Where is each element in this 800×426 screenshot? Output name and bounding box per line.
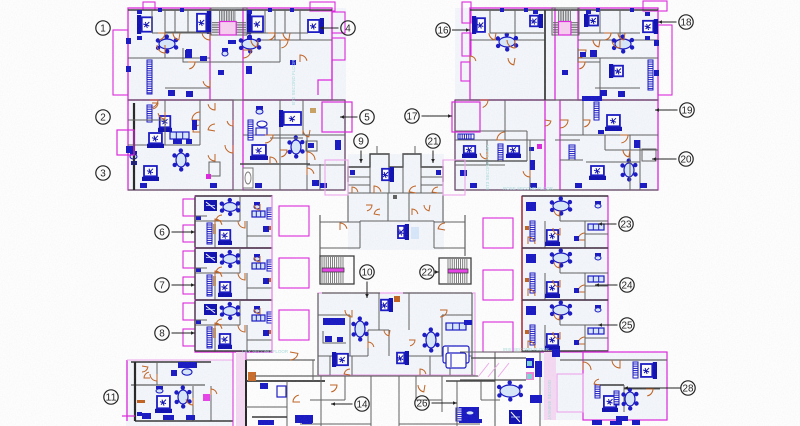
door extra TL-e [152,103,158,109]
wall BC v1 [344,376,346,400]
edge mark ML-1 [267,226,271,230]
door TL band 1 [158,33,165,40]
magenta wash corridor BR [544,352,556,420]
wall TR interior v4 [599,58,601,100]
wc TL a [168,90,175,96]
dining table MR-3 [550,300,573,319]
strip TL-4 [248,120,253,140]
wall TR interior v6 [582,100,584,135]
edge mark MR-3 [525,330,529,334]
toilet BR row [616,416,628,421]
bed TL-3 [247,14,263,34]
wall TL interior h1 [128,57,210,59]
label circle 21 [426,134,440,163]
window tick TL d [290,8,294,12]
wall BC porch h2 [310,399,345,401]
dining BL vertical [174,385,191,408]
stair center-right [439,258,471,284]
dining table MR-2 [550,248,573,267]
bed CB-4 light [443,346,469,363]
door CT-2 [409,186,416,193]
dining table MR-1 [550,196,573,215]
tub streaks BR [478,363,509,377]
closet TR3 strip [594,102,599,120]
wall TL mid-h [128,99,345,101]
wall MR-1 top [522,195,608,197]
wall CB v6 [441,315,443,356]
wall TR interior h2 [578,39,658,41]
door CT-5 [352,187,358,193]
bed TL-10 [279,110,301,127]
wall CT h2 [348,184,370,186]
unit outline TR-2 [578,8,658,100]
balcony ML-2 [279,258,309,288]
unit outline TL-4 [243,100,345,190]
door TL-6 [265,135,273,143]
door TL u3 e [208,154,215,161]
wall TL band v c [264,10,266,33]
door BR-2 [583,362,591,370]
wall TR mid-h [455,99,658,101]
door TR u3 a [623,150,630,157]
door extra TR-e [545,120,551,126]
wc TL b [186,91,193,97]
wc row TR a [470,183,477,188]
wall MR-1 h1 [560,220,608,222]
wall CT h2b [348,176,370,178]
wall ML-1 v3 [246,221,248,248]
ac stack TR3 [569,145,575,160]
wc TR u4 [460,170,467,176]
fixture BC a [302,415,312,424]
label circle 1 [96,21,110,35]
door extra ML-2 [216,267,222,273]
magenta dot TL [206,174,211,179]
wc row TR b [530,183,537,188]
wall TR3 h162 [586,161,640,163]
dining table ML-2 [220,250,241,268]
wall TL left edge black [133,103,135,190]
kitchen MR-3 [526,306,536,315]
armchair ML-2 [204,252,217,263]
closet TR-2 [458,134,474,139]
CB outline [318,293,475,375]
wall BL corridor h4 [252,416,287,418]
door TL-9 [150,100,158,108]
wall BC porch h3 [416,399,442,401]
label circle 17 [405,109,452,123]
wall CB v7 [351,356,353,375]
door TR-8 [523,170,530,177]
door BC-2 [418,385,425,392]
wall ML-2 h2 [247,287,272,289]
wall CB h1 [318,314,350,316]
door extra TR-b [578,62,585,69]
nightstand TR c [645,12,650,16]
wall TL band v d [284,10,286,33]
porch ML-2 a [183,251,195,268]
closet MR-2 [530,273,535,293]
tv BL [178,362,197,368]
label circle 18 [658,15,693,29]
nightstand MR-1 [574,236,579,241]
wall TL u4 h [307,164,345,166]
wall ML-1 top [195,195,272,197]
bed TL-1 [137,15,152,34]
cyan dot BR a [527,361,532,366]
corridor wall left v [319,215,321,256]
dining TL-1 [156,34,179,53]
wall CB v5 [349,315,351,356]
paper tint TL [128,8,346,190]
wall CB h3 [318,355,368,357]
wall TR band h [490,32,545,34]
kitchen counter TL [183,48,210,62]
basin ML-2 [196,268,201,272]
wall ML-1 h1 [195,220,240,222]
window stack ML-3 [267,312,272,323]
wall BC v5 [441,376,443,412]
wall TR interior v3 [619,10,621,40]
dining TR-3 vertical [620,158,637,181]
wall CT v3 [402,154,404,193]
porch TL top b [310,2,335,11]
label circle 2 [96,110,110,124]
porch TL left mid [117,130,134,155]
wall TR-3 h extra [605,149,658,151]
wall TR interior v2 [544,10,546,100]
magenta dot TR [537,144,542,149]
window tick TL a [158,8,162,12]
orange figure BL [248,372,256,381]
wall BL h1 [131,384,205,386]
orange box CB [394,296,400,302]
sofa ML-2 [252,263,265,269]
wc bits BL a [258,420,274,425]
wc TR u3 [634,140,640,148]
sink CB [325,336,332,342]
balcony TL right steps b [332,38,345,60]
door TL-1 [157,45,165,53]
wall MR-2 v3 [544,273,546,300]
wall TL band h [152,32,210,34]
bed TR-7 [506,146,521,158]
door ML-2 c [254,256,260,262]
wall TL interior v8 [306,135,308,190]
door CB-3 [368,342,374,348]
label circle 3 [96,166,110,180]
wall TL interior v2 [187,10,189,32]
wc row BR26 [464,419,482,423]
door BR-1 [612,360,620,368]
tan strip ML-1 [213,224,216,234]
bed TR-4 [643,19,658,34]
door CB-2 [440,310,447,317]
paper tint CENTER [348,154,444,250]
door TL-2 [243,50,251,58]
wall TL interior v1 [164,10,166,58]
basin ML-3 [196,320,201,324]
wall TR top [470,9,658,11]
wall MR-2 v1 [559,250,561,273]
balcony ML-3 [279,310,309,340]
toilet row BL b [163,415,174,420]
coffee table TL [173,139,182,144]
toilet TL-3 [130,151,137,159]
dresser TL u4 [335,140,341,150]
unit outline ML-1 [195,196,272,248]
wall ML-2 v1 [239,248,241,273]
BL magenta top [127,359,233,361]
wall TL band v a [151,10,153,33]
door ML-2 b [215,271,222,278]
wall BL corridor v mag a [232,352,234,426]
wall CB central room l [367,330,369,356]
window stack ML-2 [267,260,272,271]
edge mark ML-2 [267,278,271,282]
toilet MR-3 [595,305,601,312]
wall MR-2 h1 [560,272,608,274]
door extra TL-a [188,62,195,69]
wall ML-2 top [195,247,272,249]
door TL u3 b [193,125,200,132]
porch ML-3 a [183,303,195,320]
bed TR-8 [605,115,622,131]
unit outline TR-3 [560,100,658,190]
label circle 24 [595,278,634,292]
wall TL-4 h138 [270,137,303,139]
dark bed BR [509,410,522,424]
door MR-2 [553,280,560,287]
bed TR-9 [589,166,606,180]
corridor wall h right [434,247,465,249]
door TL band 3 [268,33,275,40]
hall fixture TL [218,70,224,75]
wall CB v8 [429,356,431,375]
wc row TL d [320,183,327,188]
wall BL corridor v mag b [245,352,247,360]
bed BR-3 light [446,353,466,368]
wall CT h3 [421,184,443,186]
wall BR26 h400 [481,399,500,401]
wall TL interior v3 [274,10,276,40]
sink TL [200,56,207,61]
wall CB v2 [471,293,473,375]
wall MR-2 top [522,247,608,249]
wall BC bottom-l [300,423,371,425]
paper tint MR [522,196,608,352]
armchair ML-1 [204,200,217,211]
kitchen counter CB [323,331,346,343]
wall BL v3 [192,386,194,421]
wall BR26 v457 [456,381,458,426]
label circle 26 [415,396,457,410]
door CT-4 [424,205,430,211]
wall TR u4 v [486,140,488,165]
dining TR-2 [612,34,635,53]
room box 5 [322,102,352,132]
dresser TL u3 [192,120,197,130]
wall TR band h2 [578,32,640,34]
wc ML-2 [263,278,269,284]
door MR-3 b [578,337,585,344]
lamp table TR [598,130,604,134]
wall TR interior h3 [578,57,658,59]
cyan dot BR b [527,374,532,379]
bed CB-2 [332,352,348,367]
door MR-1 c [528,237,535,244]
door BR-3 [646,389,653,396]
toilet row BL c [186,415,195,420]
door CT-1 [374,186,381,193]
door TL-7 [192,112,200,120]
wc row TR c [575,183,582,188]
door extra MR-3 [554,314,560,320]
bed MR-3 [545,334,560,350]
wall CT castellated top [348,154,443,182]
teal text BR [503,347,550,352]
orange band BL [137,400,145,403]
dining BR-1 vertical [621,387,638,410]
nightstand TL c [247,10,252,14]
label circle 16 [436,23,470,37]
wall ML-1 h3 [195,215,207,217]
wall CB v3 [378,293,380,330]
unit outline TR-1 [470,8,555,100]
door extra CT-b [412,209,418,215]
wall wing h [300,134,345,136]
wall TL interior h5 [128,144,200,146]
wall TL interior h4 [210,61,243,63]
label circle 20 [652,152,693,166]
dining CB-1 vertical [351,316,368,341]
door TR-2 [578,50,586,58]
bathtub TL-4 [243,168,253,188]
wall TL unit2 h [243,61,280,63]
wall TR3 h140 [555,139,580,141]
door ML-1 b [215,219,222,226]
corridor wall right v [464,215,466,256]
desk row CB-1 [323,318,345,325]
bed TL-7 [142,166,159,181]
label circle 4 [320,21,355,35]
wall ML-1 left dark [194,197,196,247]
door extra TR-c [593,40,600,47]
wall TL interior v4 [299,10,301,40]
closet MR-3 [530,325,535,345]
door leaf TL [209,162,220,176]
door TL-4 a [303,130,310,137]
stair center-left [320,256,354,284]
sofa TL-1 [170,132,189,139]
wall MR-3 top [522,299,608,301]
toilet MR-2 [595,253,601,260]
door TL band 4 [283,33,290,40]
paper tint CB [318,293,475,375]
basin box TL-4 [256,128,267,135]
door BL-5 [142,366,148,372]
wall ML-3 top [195,299,272,301]
bed TL-6 [147,133,164,148]
wall TR u3 v [629,135,631,190]
wc row TL a [140,183,147,188]
closet ML-2 [207,275,212,296]
magenta line BL [122,415,135,417]
wall CT h1 [348,192,443,194]
closet BR strip2 [614,391,619,405]
door CT-3 [366,205,372,211]
window tick TL e [126,38,131,44]
label circle 25 [598,318,634,332]
wall CB v4 [408,293,410,330]
door extra TR-d [470,56,476,62]
wall TL-4 v303 [302,100,304,135]
BR outline [583,352,667,420]
tv TL-1 [228,40,236,44]
wall TL right v [344,100,346,190]
wall TL low h [165,87,210,89]
porch TR left a [462,2,471,23]
door extra TL-f [227,120,233,126]
wall ML-3 v1 [239,300,241,325]
wall BL v2 [156,362,158,385]
door MR-1 b [578,233,585,240]
door CT-6 [432,187,438,193]
wall TR band v c [619,10,621,33]
wall BL left edge black [134,362,136,421]
wall TR-4 v extra [529,140,531,190]
wall TR low h [595,87,640,89]
sink TR-4 [529,147,534,151]
basin TL-4 [257,121,267,127]
bed ML-3 [218,334,232,349]
wall BC v3 [398,376,400,426]
toilet MR-1 [595,201,601,208]
tan strip ML-2 [213,276,216,286]
wc ML-1 [263,226,269,232]
wall ML-3 h3 [195,319,207,321]
bed TR-1 [472,16,485,34]
label circle 6 [155,225,195,239]
BL magenta left edge [126,360,128,421]
sofa CB-1 [446,323,466,330]
door MR-2 b [578,285,585,292]
shower tri BL [260,383,268,389]
wc TL d [246,66,252,74]
wall TR left v [454,100,456,190]
wall TL interior h2 [165,31,210,33]
bed TR-2 [530,14,543,28]
shaft CT [411,227,419,239]
dining table ML-3 [220,302,241,320]
wall BC v2 [370,376,372,426]
wall BR26 h381 [446,380,495,382]
wall CT h3b [421,176,443,178]
paper tint BR [540,352,668,420]
sofa MR-1 [588,224,604,230]
door BC-1 [330,385,337,392]
bath BR a [526,358,534,368]
wall ML-3 h1 [195,324,240,326]
wall TL interior v5 [232,100,234,190]
door TL-4 b [270,157,277,164]
wall CB central room t [368,329,389,331]
door extra CB-a [344,369,350,375]
red edge MR-2 [521,248,523,300]
bed TR-3 [584,14,598,27]
toilet BL [156,386,163,393]
wall TL top [128,9,332,11]
